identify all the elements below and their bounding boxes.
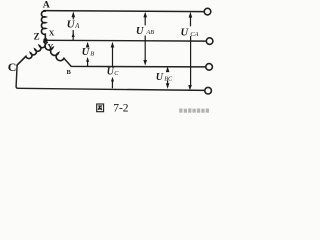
terminal circle line A [204, 8, 211, 15]
svg-text:Z: Z [34, 32, 40, 42]
svg-text:X: X [49, 29, 55, 38]
line voltage arrow U_BC (double headed B to C) [166, 66, 170, 88]
svg-text:BC: BC [164, 76, 173, 83]
svg-text:A: A [43, 0, 50, 11]
watermark 头条号电工爱好 (grey blobs) [179, 108, 209, 112]
line voltage arrow U_AB (double headed A to B) [143, 12, 147, 66]
voltage arrow U_B (shaft and heads) [86, 42, 90, 67]
winding A-X (coil) [41, 11, 45, 38]
winding C-Z (coil) [17, 42, 45, 65]
svg-text:U: U [156, 72, 164, 83]
terminal circle line B [206, 64, 213, 71]
terminal circle line C [205, 87, 212, 94]
winding B-Y (coil) [45, 42, 64, 60]
caption glyph 图 [97, 104, 104, 112]
wire line A (top bus) [44, 11, 204, 12]
paper background [0, 0, 220, 121]
svg-text:Y: Y [47, 42, 53, 52]
svg-text:C: C [8, 60, 17, 74]
voltage arrow U_C (shaft and heads) [111, 42, 115, 89]
svg-text:B: B [90, 50, 94, 57]
wire line B (diagonal from B terminal + bus) [64, 58, 206, 67]
voltage arrow U_A (shaft and heads) [72, 11, 76, 40]
svg-text:AB: AB [145, 29, 154, 36]
node star point XYZ (junction dot) [43, 38, 47, 42]
line voltage arrow U_CA (double headed C to A) [188, 12, 192, 91]
terminal circle neutral N [206, 38, 213, 45]
svg-text:A: A [74, 23, 80, 30]
wire neutral N (from star point) [47, 39, 207, 42]
svg-text:7-2: 7-2 [113, 103, 129, 115]
wire line C (vertical drop from C + bottom bus) [16, 65, 204, 90]
svg-text:CA: CA [190, 31, 198, 38]
svg-text:B: B [67, 69, 72, 76]
